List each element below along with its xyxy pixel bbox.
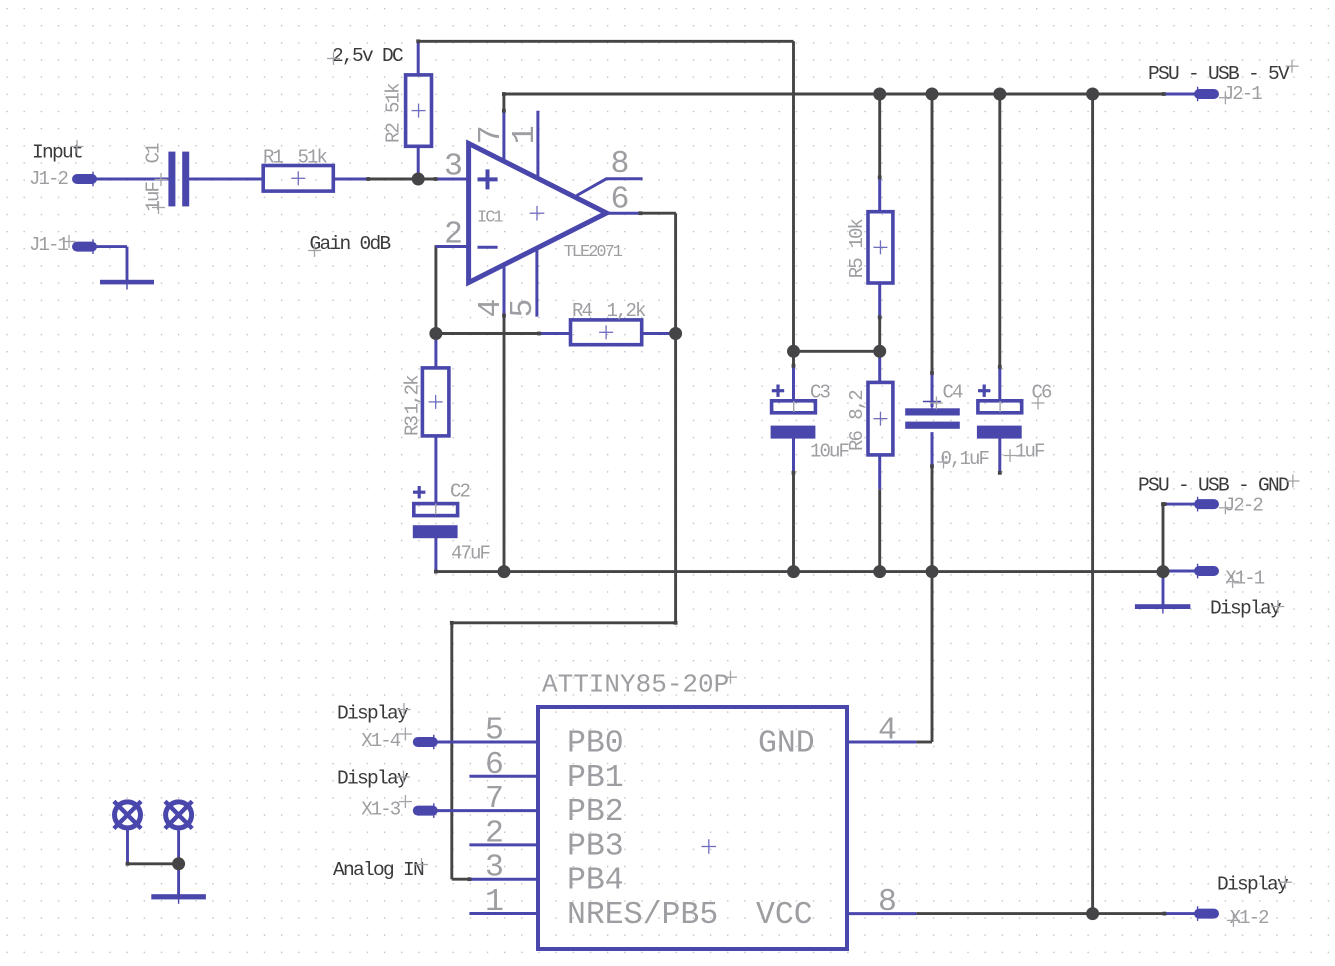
svg-text:R3: R3 xyxy=(402,415,424,436)
svg-text:PB4: PB4 xyxy=(567,864,624,899)
svg-text:3: 3 xyxy=(444,150,463,185)
svg-text:VCC: VCC xyxy=(756,898,813,933)
svg-text:6: 6 xyxy=(611,183,630,218)
svg-text:Analog IN: Analog IN xyxy=(333,859,424,881)
svg-text:PB0: PB0 xyxy=(567,727,624,762)
svg-text:J1-2: J1-2 xyxy=(29,168,69,190)
svg-text:2: 2 xyxy=(444,218,463,253)
svg-text:PB2: PB2 xyxy=(567,795,624,830)
svg-text:R2: R2 xyxy=(383,122,405,143)
svg-text:IC1: IC1 xyxy=(477,208,503,227)
svg-text:R5: R5 xyxy=(846,258,868,279)
svg-text:0,1uF: 0,1uF xyxy=(941,448,990,470)
svg-text:PB1: PB1 xyxy=(567,761,624,796)
svg-text:51k: 51k xyxy=(298,146,328,168)
svg-text:5: 5 xyxy=(485,714,504,749)
svg-text:Display: Display xyxy=(1210,597,1282,619)
svg-text:8,2: 8,2 xyxy=(846,390,868,420)
svg-text:X1-4: X1-4 xyxy=(361,730,401,752)
svg-text:7: 7 xyxy=(474,125,509,144)
svg-text:X1-3: X1-3 xyxy=(361,799,401,821)
svg-text:1,2k: 1,2k xyxy=(607,300,647,322)
svg-text:X1-1: X1-1 xyxy=(1225,567,1265,589)
svg-text:6: 6 xyxy=(485,748,504,783)
svg-text:1: 1 xyxy=(485,885,504,920)
svg-text:47uF: 47uF xyxy=(451,543,491,565)
svg-text:Input: Input xyxy=(32,142,82,164)
svg-text:C1: C1 xyxy=(142,143,164,164)
svg-text:51k: 51k xyxy=(383,83,405,113)
svg-text:TLE2071: TLE2071 xyxy=(564,243,623,262)
svg-text:2: 2 xyxy=(485,816,504,851)
svg-text:8: 8 xyxy=(611,147,630,182)
svg-text:1uF: 1uF xyxy=(1015,441,1045,463)
svg-text:R4: R4 xyxy=(572,300,593,322)
svg-text:X1-2: X1-2 xyxy=(1230,907,1270,929)
svg-text:PSU - USB - 5V: PSU - USB - 5V xyxy=(1148,63,1290,85)
svg-text:J1-1: J1-1 xyxy=(29,234,69,256)
svg-text:C2: C2 xyxy=(450,481,471,503)
svg-text:ATTINY85-20P: ATTINY85-20P xyxy=(542,670,729,700)
svg-text:GND: GND xyxy=(758,727,815,762)
svg-text:R6: R6 xyxy=(846,430,868,451)
svg-text:Display: Display xyxy=(1217,874,1289,896)
svg-text:2,5v DC: 2,5v DC xyxy=(332,45,403,67)
svg-text:Gain 0dB: Gain 0dB xyxy=(310,233,391,255)
svg-text:3: 3 xyxy=(485,851,504,886)
svg-text:8: 8 xyxy=(878,885,897,920)
svg-text:10k: 10k xyxy=(846,218,868,248)
svg-text:C3: C3 xyxy=(810,382,831,404)
svg-text:J2-1: J2-1 xyxy=(1223,83,1263,105)
svg-text:PSU - USB - GND: PSU - USB - GND xyxy=(1138,475,1289,497)
svg-text:Display: Display xyxy=(337,767,409,789)
svg-text:10uF: 10uF xyxy=(810,441,850,463)
svg-text:5: 5 xyxy=(506,299,541,318)
svg-text:4: 4 xyxy=(878,714,897,749)
svg-text:1: 1 xyxy=(508,125,543,144)
svg-text:J2-2: J2-2 xyxy=(1224,494,1264,516)
svg-text:C4: C4 xyxy=(943,382,964,404)
svg-text:NRES/PB5: NRES/PB5 xyxy=(567,898,718,933)
svg-text:C6: C6 xyxy=(1032,382,1053,404)
svg-text:4: 4 xyxy=(474,299,509,318)
svg-text:Display: Display xyxy=(337,702,409,724)
svg-text:R1: R1 xyxy=(263,146,284,168)
svg-text:PB3: PB3 xyxy=(567,829,624,864)
svg-text:7: 7 xyxy=(485,782,504,817)
svg-text:1,2k: 1,2k xyxy=(402,375,424,415)
